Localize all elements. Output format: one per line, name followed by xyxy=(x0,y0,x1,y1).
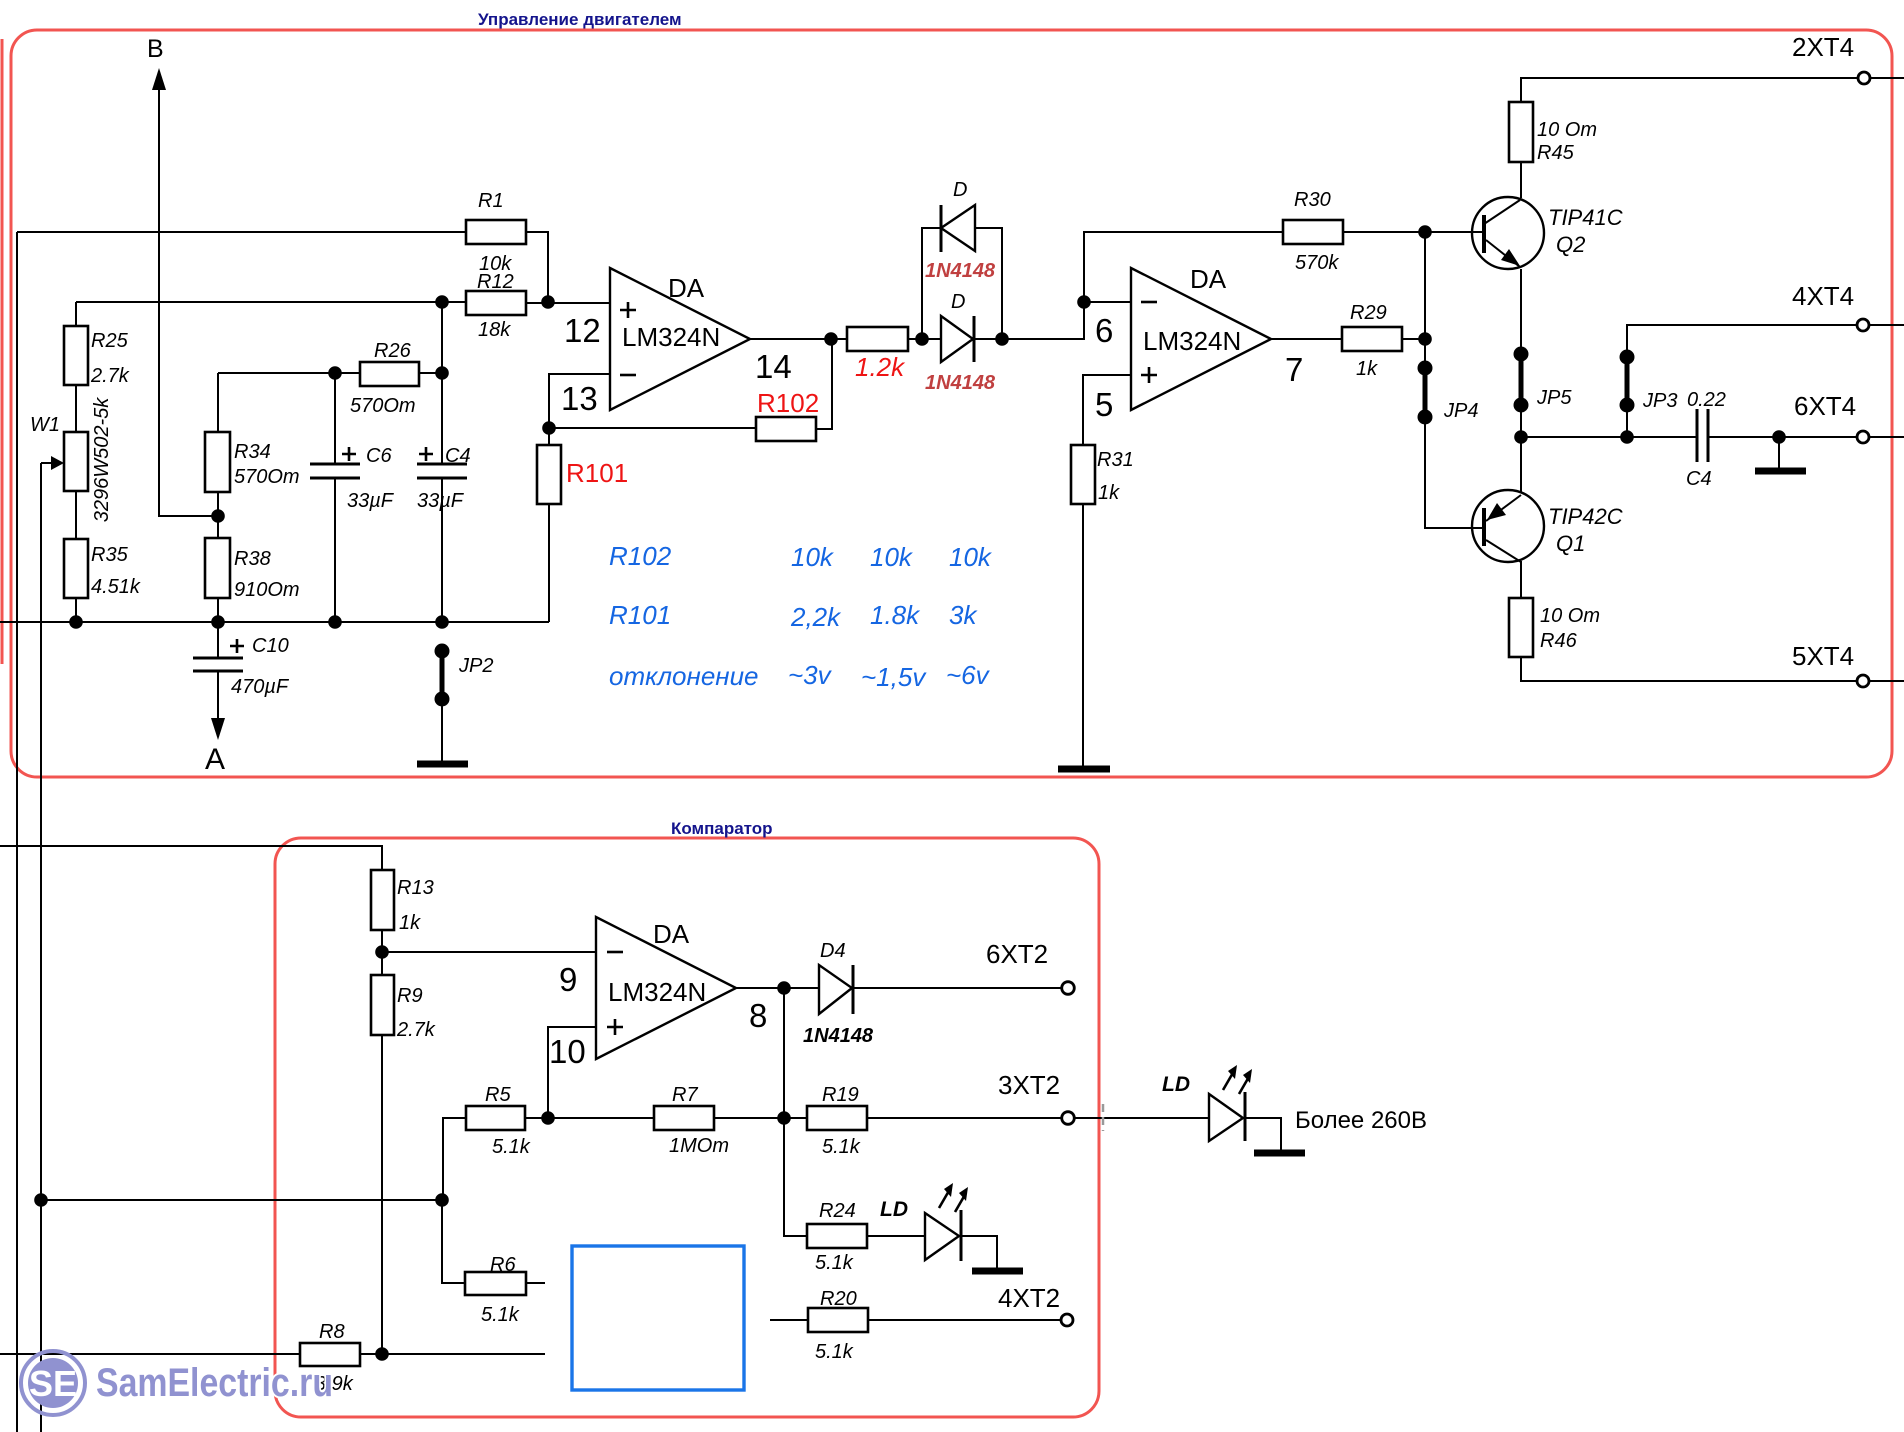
wire: R12 input row xyxy=(76,301,466,303)
svg-text:Q1: Q1 xyxy=(1556,531,1585,556)
svg-text:отклонение: отклонение xyxy=(609,661,759,691)
resistor R13 xyxy=(371,870,394,930)
svg-text:R102: R102 xyxy=(609,541,672,571)
wire: R34 branch from R26 input down xyxy=(217,373,219,432)
svg-text:Q2: Q2 xyxy=(1556,232,1585,257)
svg-text:7: 7 xyxy=(1285,351,1303,388)
wire: C4 rail from R12 node down through cap to bus xyxy=(441,302,443,622)
wire: R31 to ground xyxy=(1082,504,1084,766)
capacitor C6 plates xyxy=(310,464,360,478)
wire: R24 to LD2 xyxy=(867,1235,925,1237)
resistor R25 xyxy=(64,326,88,385)
svg-text:1N4148: 1N4148 xyxy=(925,372,996,394)
capacitor C10 plates xyxy=(193,658,243,671)
svg-text:D: D xyxy=(951,291,965,313)
wire: comparator feed row from left edge xyxy=(0,846,382,870)
wire: R102 to output node xyxy=(816,339,832,429)
junction R30/Q2 base rail xyxy=(1418,225,1432,239)
svg-text:9: 9 xyxy=(559,961,577,998)
frame: motor-control section box xyxy=(11,30,1892,777)
resistor R8 xyxy=(300,1343,360,1366)
resistor R45 xyxy=(1509,102,1533,162)
wire: R30 to Q2 base xyxy=(1343,231,1484,233)
jumper JP4 xyxy=(1418,361,1433,376)
svg-text:TIP42C: TIP42C xyxy=(1548,504,1623,529)
svg-text:~3v: ~3v xyxy=(788,660,833,690)
svg-text:C6: C6 xyxy=(366,445,392,467)
terminal 5XT4 xyxy=(1857,675,1869,687)
junction on R12 input row xyxy=(435,295,449,309)
wire: R13 to divider node xyxy=(381,930,383,975)
svg-text:10k: 10k xyxy=(870,542,914,572)
resistor R6 xyxy=(465,1272,526,1295)
svg-text:5.1k: 5.1k xyxy=(822,1136,861,1158)
junction R7/R19/D4 rail xyxy=(777,1111,791,1125)
svg-text:6: 6 xyxy=(1095,312,1113,349)
svg-text:JP2: JP2 xyxy=(458,655,493,677)
svg-text:DA: DA xyxy=(1190,264,1227,294)
svg-text:R101: R101 xyxy=(566,458,628,488)
Q1 collector stroke xyxy=(1486,540,1521,562)
wire: Q1 collector down to R46 xyxy=(1520,561,1522,598)
junction R29/base rail xyxy=(1418,332,1432,346)
ground under JP2 xyxy=(417,761,468,768)
LED LD (overvoltage) xyxy=(1209,1094,1243,1141)
W1 wiper arrow xyxy=(41,462,54,464)
wire: mid row from wiper rail xyxy=(41,1199,442,1201)
svg-text:R12: R12 xyxy=(477,271,514,293)
svg-text:D: D xyxy=(953,179,967,201)
svg-text:JP3: JP3 xyxy=(1642,390,1677,412)
resistor R29 xyxy=(1342,327,1402,351)
wire: 5XT4 stub to edge xyxy=(1869,680,1904,682)
svg-text:R102: R102 xyxy=(757,388,819,418)
wire: R5 to R7 xyxy=(525,1117,654,1119)
svg-text:R45: R45 xyxy=(1537,142,1575,164)
svg-text:C4: C4 xyxy=(445,445,471,467)
op-amp DA2 + input sign xyxy=(1141,367,1157,383)
svg-text:Более 260В: Более 260В xyxy=(1295,1107,1427,1134)
wire: R12 output to op-amp + input xyxy=(526,302,610,304)
svg-text:5XT4: 5XT4 xyxy=(1792,641,1854,671)
power arrow B xyxy=(152,68,166,90)
svg-text:4XT4: 4XT4 xyxy=(1792,281,1854,311)
wire: left vertical rail from R1 row to bottom edge xyxy=(16,232,18,1432)
svg-text:R1: R1 xyxy=(478,190,504,212)
wire: LD cathode to ground xyxy=(1245,1118,1281,1150)
Q2 emitter arrow xyxy=(1501,249,1520,266)
svg-text:1.2k: 1.2k xyxy=(855,352,906,382)
svg-text:~1,5v: ~1,5v xyxy=(861,662,927,692)
ground under R31 xyxy=(1058,766,1110,773)
junction bypass loop left xyxy=(915,332,929,346)
junction pin13 node xyxy=(542,421,556,435)
svg-text:R101: R101 xyxy=(609,600,671,630)
svg-text:1N4148: 1N4148 xyxy=(803,1025,874,1047)
svg-text:LM324N: LM324N xyxy=(622,322,720,352)
svg-text:SE: SE xyxy=(29,1363,77,1404)
svg-text:1.8k: 1.8k xyxy=(870,600,921,630)
wire: pin6 node to DA2 - input xyxy=(1084,301,1131,303)
wire: pin13 node to R102 xyxy=(549,427,756,429)
svg-text:2,2k: 2,2k xyxy=(790,602,842,632)
wire: 2XT4 stub to edge xyxy=(1870,77,1904,79)
junction output node (emitters) xyxy=(1514,430,1528,444)
wire: 1.2k to diode D anode xyxy=(908,338,941,340)
svg-text:2.7k: 2.7k xyxy=(396,1019,436,1041)
svg-text:R20: R20 xyxy=(820,1288,857,1310)
diode D4 xyxy=(819,965,852,1014)
terminal 6XT4 xyxy=(1857,431,1869,443)
op-amp DA1 - input sign xyxy=(620,374,636,377)
svg-text:JP5: JP5 xyxy=(1536,387,1572,409)
wire: JP5 to output node xyxy=(1520,405,1522,437)
resistor R102 xyxy=(756,417,816,441)
op-amp DA2 (LM324N pins 6/5/7) xyxy=(1131,268,1271,410)
wire: DA3 + input riser xyxy=(548,1027,596,1118)
LED LD2 xyxy=(925,1213,959,1260)
terminal 4XT4 xyxy=(1857,319,1869,331)
svg-text:470µF: 470µF xyxy=(231,676,290,698)
wire: C10 branch below bus xyxy=(217,622,219,722)
svg-text:D4: D4 xyxy=(820,940,846,962)
wire: R7 to R19 xyxy=(714,1117,807,1119)
svg-text:3k: 3k xyxy=(949,600,978,630)
svg-text:R13: R13 xyxy=(397,877,434,899)
terminal 6XT2 xyxy=(1062,982,1075,995)
junction bypass loop right xyxy=(995,332,1009,346)
resistor R31 xyxy=(1071,445,1095,504)
svg-text:10k: 10k xyxy=(949,542,993,572)
op-amp DA2 - input sign xyxy=(1141,301,1157,304)
transistor Q1 TIP42C xyxy=(1472,490,1544,562)
svg-text:10 Om: 10 Om xyxy=(1540,605,1600,627)
jumper JP3 xyxy=(1620,350,1635,365)
svg-text:3296W502-5k: 3296W502-5k xyxy=(91,397,113,523)
wire: Q2 emitter down to JP5 xyxy=(1520,269,1522,354)
svg-text:14: 14 xyxy=(755,348,792,385)
resistor R12 xyxy=(466,291,526,315)
svg-text:3XT2: 3XT2 xyxy=(998,1070,1060,1100)
svg-text:33µF: 33µF xyxy=(347,490,395,512)
svg-text:1k: 1k xyxy=(1098,482,1120,504)
svg-text:LD: LD xyxy=(880,1198,908,1221)
resistor R35 xyxy=(64,539,88,598)
capacitor C4 0.22 plates xyxy=(1697,409,1708,462)
svg-text:DA: DA xyxy=(668,273,705,303)
svg-text:33µF: 33µF xyxy=(417,490,465,512)
svg-text:4XT2: 4XT2 xyxy=(998,1283,1060,1313)
svg-text:R26: R26 xyxy=(374,340,412,362)
wire: R20 to 4XT2 xyxy=(868,1319,1061,1321)
wire: 3XT2 to LD anode xyxy=(1074,1117,1209,1119)
svg-text:R30: R30 xyxy=(1294,189,1331,211)
svg-text:Управление двигателем: Управление двигателем xyxy=(478,10,682,29)
Q1 base bar xyxy=(1482,508,1486,546)
wire: DA2 + input from R31 xyxy=(1083,375,1131,445)
svg-text:570Om: 570Om xyxy=(350,395,416,417)
junction JP3 bottom xyxy=(1620,430,1634,444)
Q1 emitter stroke xyxy=(1486,495,1521,521)
svg-text:5.1k: 5.1k xyxy=(815,1252,854,1274)
op-amp DA1 + input sign xyxy=(620,302,636,318)
wire: W1 to R35 xyxy=(75,491,77,539)
svg-text:R9: R9 xyxy=(397,985,423,1007)
svg-text:DA: DA xyxy=(653,919,690,949)
op-amp DA3 - input sign xyxy=(607,951,623,954)
jumper JP5 xyxy=(1514,347,1529,362)
svg-text:R5: R5 xyxy=(485,1084,511,1106)
junction wiper rail xyxy=(34,1193,48,1207)
junction on R34-R38 node xyxy=(211,509,225,523)
capacitor C4 33uF plates xyxy=(417,464,467,478)
wire: R38 to bus xyxy=(217,598,219,622)
terminal 2XT4 xyxy=(1858,72,1870,84)
LED LD light arrows xyxy=(1223,1071,1234,1090)
potentiometer W1 body xyxy=(64,432,88,491)
frame: stray red border at left edge xyxy=(1,39,4,664)
wire: base rail vertical xyxy=(1425,232,1484,528)
resistor R1 xyxy=(466,220,526,244)
wire: R35 to ground bus xyxy=(75,598,77,622)
transistor Q2 TIP41C xyxy=(1472,197,1544,269)
svg-text:12: 12 xyxy=(564,312,601,349)
svg-text:570k: 570k xyxy=(1295,252,1339,274)
svg-text:18k: 18k xyxy=(478,319,511,341)
op-amp DA3 (LM324N pins 9/10/8) xyxy=(596,917,736,1059)
wire: R20 left stub xyxy=(770,1319,808,1321)
svg-text:R19: R19 xyxy=(822,1084,859,1106)
wire: R8 row from left edge xyxy=(0,1353,300,1355)
wire: R46 to 5XT4 xyxy=(1521,657,1857,681)
diode D (bypass, pointing left) xyxy=(941,205,975,251)
svg-text:10 Om: 10 Om xyxy=(1537,119,1597,141)
op-amp DA3 + input sign xyxy=(607,1019,623,1035)
wire: B rail vertical xyxy=(159,88,218,516)
svg-text:10: 10 xyxy=(549,1033,586,1070)
junction bus/R38-C10 xyxy=(211,615,225,629)
ground under LD2 xyxy=(972,1268,1023,1275)
terminal 3XT2 xyxy=(1062,1112,1075,1125)
resistor R26 xyxy=(360,362,419,386)
wire: R1 input row from left rail xyxy=(17,231,466,233)
wire: R26 input row xyxy=(218,372,360,374)
wire: R29 to base rail xyxy=(1402,338,1425,340)
resistor R20 xyxy=(808,1308,868,1332)
callout blue rectangle xyxy=(572,1246,744,1390)
svg-text:LM324N: LM324N xyxy=(1143,326,1241,356)
svg-text:10k: 10k xyxy=(791,542,835,572)
svg-text:1k: 1k xyxy=(1356,358,1378,380)
wire: R45 to 2XT4 xyxy=(1521,78,1858,102)
svg-text:R46: R46 xyxy=(1540,630,1578,652)
svg-text:R38: R38 xyxy=(234,548,271,570)
svg-text:5.1k: 5.1k xyxy=(481,1304,520,1326)
junction bus/C6 xyxy=(328,615,342,629)
svg-text:1MOm: 1MOm xyxy=(669,1135,729,1157)
wire: pin13 node down to R101 xyxy=(548,428,550,445)
polarity + of C10 xyxy=(230,639,244,653)
LED LD2 light arrows xyxy=(939,1189,950,1208)
svg-text:4.51k: 4.51k xyxy=(91,576,141,598)
wire: R5 input bend xyxy=(443,1118,466,1200)
svg-text:SamElectric.ru: SamElectric.ru xyxy=(96,1361,333,1405)
junction pin 6 node xyxy=(1077,295,1091,309)
wire: diode D cathode to pin6 riser xyxy=(974,302,1084,339)
wire: drop to ground right of C4 xyxy=(1778,437,1780,468)
wire: R101 to ground bus xyxy=(548,504,550,622)
junction + input node xyxy=(541,295,555,309)
terminal 4XT2 xyxy=(1061,1314,1073,1326)
svg-text:5: 5 xyxy=(1095,386,1113,423)
wire: R8 to blue box stub xyxy=(360,1353,545,1355)
svg-text:R24: R24 xyxy=(819,1200,856,1222)
svg-text:R29: R29 xyxy=(1350,302,1387,324)
wire: R9 down to R8 row xyxy=(381,1035,383,1354)
resistor 1.2k xyxy=(847,327,908,351)
resistor R9 xyxy=(371,975,394,1035)
ground under LD xyxy=(1254,1150,1305,1157)
resistor R5 xyxy=(466,1106,525,1130)
watermark SamElectric logo xyxy=(21,1351,85,1415)
svg-text:LM324N: LM324N xyxy=(608,977,706,1007)
svg-text:LD: LD xyxy=(1162,1073,1190,1096)
svg-text:R8: R8 xyxy=(319,1321,345,1343)
svg-text:0.22: 0.22 xyxy=(1687,389,1726,411)
wire: W1 wiper vertical rail down to bottom edge xyxy=(40,463,42,1432)
wire: DA3 output row xyxy=(736,987,819,989)
svg-text:8: 8 xyxy=(749,997,767,1034)
wire: R6 right stub xyxy=(526,1282,545,1284)
Q2 emitter stroke xyxy=(1486,240,1520,267)
svg-text:A: A xyxy=(205,743,225,776)
wire: Q2 collector up to R45 xyxy=(1520,162,1522,198)
junction bus/R35 xyxy=(69,615,83,629)
svg-text:TIP41C: TIP41C xyxy=(1548,205,1623,230)
junction divider node pin 9 xyxy=(375,945,389,959)
svg-text:910Om: 910Om xyxy=(234,579,300,601)
resistor R101 xyxy=(537,445,561,504)
junction R26 output on C4 rail xyxy=(435,366,449,380)
wire: 4XT4 stub to edge xyxy=(1869,324,1904,326)
svg-text:R25: R25 xyxy=(91,330,129,352)
wire: ground bus xyxy=(0,621,549,623)
svg-text:C4: C4 xyxy=(1686,468,1712,490)
svg-text:570Om: 570Om xyxy=(234,466,300,488)
wire: output row to C4 and 6XT4 xyxy=(1521,436,1857,438)
Q1 emitter arrow xyxy=(1487,503,1506,520)
svg-text:R6: R6 xyxy=(490,1254,516,1276)
svg-text:R35: R35 xyxy=(91,544,129,566)
resistor R34 xyxy=(205,432,230,492)
wire: pin6 node up to feedback row xyxy=(1084,232,1283,302)
junction R5/DA3+ xyxy=(541,1111,555,1125)
svg-text:~6v: ~6v xyxy=(946,660,991,690)
wire: R34 to R38 xyxy=(217,492,219,538)
svg-text:6XT4: 6XT4 xyxy=(1794,391,1856,421)
svg-text:5.1k: 5.1k xyxy=(492,1136,531,1158)
Q2 base bar xyxy=(1482,215,1486,253)
resistor R7 xyxy=(654,1106,714,1130)
frame: comparator section box xyxy=(275,838,1099,1417)
op-amp DA1 (LM324N pins 12/13/14) xyxy=(610,268,750,410)
wire: R25 to W1 xyxy=(75,385,77,432)
wire: inverting input pin 13 loop xyxy=(549,374,610,428)
svg-text:2.7k: 2.7k xyxy=(90,365,130,387)
jumper JP2 xyxy=(435,644,450,659)
wire: R26 output to R12 node xyxy=(419,372,442,374)
junction R8/R9 rail xyxy=(375,1347,389,1361)
polarity + of C6 xyxy=(342,447,356,461)
wire: DA2 output to R29 xyxy=(1271,338,1342,340)
resistor R30 xyxy=(1283,220,1343,244)
power arrow A xyxy=(211,718,225,740)
resistor R24 xyxy=(807,1224,867,1248)
wire: 6XT4 stub to edge xyxy=(1869,436,1904,438)
junction bus/C4-JP2 xyxy=(435,615,449,629)
svg-text:B: B xyxy=(147,35,164,63)
wire: DA1 output row xyxy=(750,338,847,340)
svg-text:C10: C10 xyxy=(252,635,289,657)
svg-text:Компаратор: Компаратор xyxy=(671,819,773,838)
wire: rail down to R6 xyxy=(442,1200,465,1283)
ground right of C4 xyxy=(1755,468,1806,475)
svg-text:R31: R31 xyxy=(1097,449,1134,471)
wire: emitter node to Q1 xyxy=(1520,437,1522,492)
wire: JP3 links xyxy=(1627,325,1857,437)
svg-text:1k: 1k xyxy=(399,912,421,934)
diode D (series, pointing right) xyxy=(941,316,973,362)
svg-text:1N4148: 1N4148 xyxy=(925,260,996,282)
wire: drop to divider R25 xyxy=(75,302,77,326)
resistor R38 xyxy=(205,538,230,598)
wire: LD2 cathode to ground xyxy=(961,1236,997,1268)
wire: bypass loop right leg xyxy=(975,228,1002,339)
wire: divider node to DA3 - input xyxy=(382,951,596,953)
wire: R19 to 3XT2 xyxy=(867,1117,1061,1119)
resistor R19 xyxy=(807,1106,867,1130)
junction R5/R6 rail xyxy=(435,1193,449,1207)
page mark dashes xyxy=(1102,1104,1105,1131)
Q2 collector stroke xyxy=(1484,200,1520,224)
junction C4/ground xyxy=(1772,430,1786,444)
wire: C6 rail from R26 node down to bus xyxy=(334,373,336,622)
svg-text:R34: R34 xyxy=(234,441,271,463)
svg-text:5.1k: 5.1k xyxy=(815,1341,854,1363)
svg-text:JP4: JP4 xyxy=(1443,400,1478,422)
polarity + of C4 xyxy=(419,447,433,461)
svg-text:6XT2: 6XT2 xyxy=(986,939,1048,969)
wire: JP2 to ground xyxy=(441,699,443,761)
wire: output rail down to R24 xyxy=(784,988,807,1236)
svg-text:2XT4: 2XT4 xyxy=(1792,32,1854,62)
wire: D4 to 6XT2 xyxy=(853,987,1061,989)
wire: R1 output down to + node xyxy=(526,232,548,302)
svg-text:13: 13 xyxy=(561,380,598,417)
junction output/R102 feedback xyxy=(824,332,838,346)
junction DA3 output xyxy=(777,981,791,995)
wire: bypass loop left leg xyxy=(922,228,941,339)
svg-text:R7: R7 xyxy=(672,1084,698,1106)
junction R26 input / C6 top xyxy=(328,366,342,380)
resistor R46 xyxy=(1509,598,1533,657)
svg-text:W1: W1 xyxy=(30,414,60,436)
